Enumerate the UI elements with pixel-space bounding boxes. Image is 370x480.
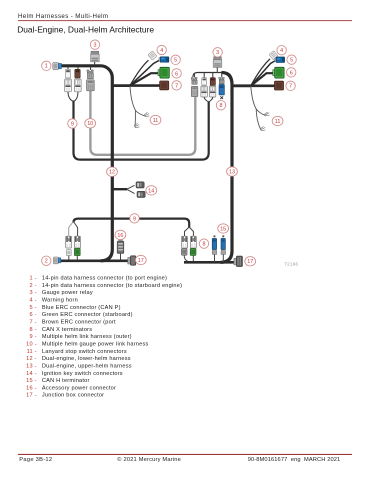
wire: gray gauge power link harness U (10) bbox=[90, 91, 195, 155]
wire: bottom line left bbox=[60, 259, 135, 262]
wire to connector 4 right bbox=[251, 59, 270, 86]
connector 1 (14-pin, port) bbox=[53, 63, 62, 70]
callout 15 bbox=[218, 224, 229, 233]
svg-text:1 -: 1 - bbox=[29, 276, 36, 282]
connector 5 right (blue ERC) bbox=[275, 57, 285, 62]
left drop A striped connector bbox=[65, 79, 72, 92]
callout 8 bottom bbox=[199, 239, 208, 248]
svg-text:6 -: 6 - bbox=[29, 312, 36, 318]
svg-text:7: 7 bbox=[289, 84, 292, 90]
header rule bbox=[18, 19, 352, 22]
x mark under 8 bbox=[220, 96, 223, 99]
CAN H terminator 15 (blue) bbox=[221, 235, 226, 262]
svg-text:8 -: 8 - bbox=[29, 327, 36, 333]
svg-text:Dual-engine, lower-helm harnes: Dual-engine, lower-helm harness bbox=[42, 356, 131, 362]
bottom-right green connector bbox=[190, 248, 196, 255]
callout 3 left bbox=[90, 40, 99, 49]
right small white connector bbox=[202, 78, 207, 85]
svg-text:8: 8 bbox=[203, 242, 206, 248]
lanyard wires 11 left bbox=[130, 86, 145, 116]
svg-text:7: 7 bbox=[175, 83, 178, 89]
callout 11 left bbox=[150, 115, 161, 124]
right small brown connector bbox=[210, 78, 215, 86]
svg-text:5: 5 bbox=[290, 58, 293, 64]
svg-text:6: 6 bbox=[290, 70, 293, 76]
svg-text:9 -: 9 - bbox=[29, 334, 36, 340]
callout 10 bbox=[85, 119, 96, 128]
svg-text:Page 3B-12: Page 3B-12 bbox=[19, 457, 52, 463]
connector 4 left bbox=[148, 51, 157, 60]
svg-text:Helm Harnesses - Multi-Helm: Helm Harnesses - Multi-Helm bbox=[18, 13, 108, 20]
left drop B striped connector bbox=[75, 79, 82, 92]
callout 2 bbox=[42, 256, 51, 265]
wire: branch stub right fan bbox=[232, 84, 251, 87]
svg-text:2 -: 2 - bbox=[29, 283, 36, 289]
callout 17 left bbox=[135, 255, 146, 264]
callout 7 left bbox=[172, 81, 181, 90]
svg-text:4: 4 bbox=[280, 48, 283, 54]
callout 9 upper bbox=[68, 119, 77, 128]
svg-text:12 -: 12 - bbox=[26, 356, 37, 362]
connector 2 (14-pin, starboard) bbox=[53, 257, 60, 264]
svg-text:Blue ERC connector (CAN P): Blue ERC connector (CAN P) bbox=[42, 305, 121, 311]
left crown connector (gauge power) bbox=[87, 70, 93, 79]
wire: left helm bar + lower-helm trunk (12) bbox=[60, 66, 112, 261]
svg-text:12: 12 bbox=[109, 170, 115, 176]
right drop stems bbox=[195, 73, 222, 78]
svg-text:1: 1 bbox=[45, 64, 48, 70]
svg-text:Dual-engine, upper-helm harnes: Dual-engine, upper-helm harness bbox=[42, 363, 132, 369]
svg-text:Multiple helm gauge power link: Multiple helm gauge power link harness bbox=[42, 342, 149, 348]
svg-text:3 -: 3 - bbox=[29, 290, 36, 296]
CAN X terminator 8 bottom (blue) bbox=[212, 235, 217, 262]
junction box plug 17 right bbox=[234, 256, 243, 267]
callout 8 top bbox=[216, 101, 225, 110]
right striped connector 1 bbox=[201, 86, 207, 97]
callout 6 right bbox=[287, 68, 296, 77]
bottom-left small white connector bbox=[66, 250, 71, 256]
left gray gauge connector bbox=[87, 80, 95, 91]
connector 6 left (green ERC) bbox=[158, 67, 169, 78]
svg-text:CAN X terminators: CAN X terminators bbox=[42, 327, 92, 333]
wire to connector 6 left bbox=[130, 73, 160, 85]
svg-text:Lanyard stop switch connectors: Lanyard stop switch connectors bbox=[42, 349, 127, 355]
fray end 2 left bbox=[134, 123, 139, 127]
svg-text:Green ERC connector (starboard: Green ERC connector (starboard) bbox=[42, 312, 133, 318]
wire: lower link harness 9 bbox=[73, 219, 189, 228]
lower 9 left split wires bbox=[69, 222, 74, 237]
svg-text:4: 4 bbox=[160, 48, 163, 54]
wires to key switch connectors 14 bbox=[127, 185, 135, 193]
svg-text:Dual-Engine, Dual-Helm Archite: Dual-Engine, Dual-Helm Architecture bbox=[17, 24, 154, 34]
svg-text:10: 10 bbox=[87, 121, 93, 127]
left drop A small white connector bbox=[65, 69, 70, 78]
svg-text:8: 8 bbox=[220, 103, 223, 109]
svg-text:5 -: 5 - bbox=[29, 305, 36, 311]
wire to connector 5 right bbox=[251, 61, 276, 86]
key switch connector 14b bbox=[137, 191, 145, 197]
svg-text:17: 17 bbox=[247, 259, 253, 265]
svg-text:17 -: 17 - bbox=[26, 393, 37, 399]
svg-text:14 -: 14 - bbox=[26, 371, 37, 377]
svg-text:17: 17 bbox=[138, 258, 144, 264]
bottom-right striped connector pair bbox=[182, 236, 188, 248]
svg-text:Accessory power connector: Accessory power connector bbox=[42, 385, 116, 391]
bottom-left green connector bbox=[74, 248, 80, 255]
callout 16 bbox=[115, 230, 126, 239]
wire to connector 4 left bbox=[130, 60, 149, 85]
callout 17 right bbox=[245, 257, 256, 266]
callout 12 bbox=[107, 167, 118, 176]
svg-text:9: 9 bbox=[71, 121, 74, 127]
right crown connector 1 bbox=[191, 78, 197, 85]
callout 13 bbox=[227, 167, 238, 176]
svg-text:14-pin data harness connector: 14-pin data harness connector (to starbo… bbox=[42, 283, 182, 289]
svg-text:6: 6 bbox=[175, 71, 178, 77]
key switch connector 14a bbox=[136, 182, 144, 188]
svg-text:11: 11 bbox=[153, 118, 159, 124]
left Y merge wires bbox=[68, 92, 78, 102]
relay 3 right bbox=[213, 57, 222, 73]
branch 14 stub bbox=[113, 188, 127, 190]
bottom-right gray connector bbox=[181, 249, 187, 256]
wire: right helm thin bar bbox=[193, 73, 223, 78]
wire to connector 7 left bbox=[130, 84, 160, 87]
callout 6 left bbox=[172, 69, 181, 78]
svg-text:16 -: 16 - bbox=[26, 385, 37, 391]
svg-text:15 -: 15 - bbox=[26, 378, 37, 384]
wire: dark multiple helm link harness U (9) bbox=[74, 101, 209, 160]
right crown connector 2 bbox=[219, 78, 224, 84]
callout 5 left bbox=[171, 55, 180, 64]
connector 5 left (blue ERC) bbox=[159, 57, 169, 62]
lower 9 right split wires bbox=[185, 227, 194, 237]
svg-text:13 -: 13 - bbox=[26, 363, 37, 369]
relay 3 left bbox=[91, 51, 100, 64]
svg-text:5: 5 bbox=[174, 58, 177, 64]
svg-text:© 2021 Mercury Marine: © 2021 Mercury Marine bbox=[117, 456, 181, 463]
callout 1 bbox=[42, 61, 51, 70]
callout 4 right bbox=[277, 46, 286, 55]
callout 7 right bbox=[286, 81, 295, 90]
svg-text:72196: 72196 bbox=[284, 262, 298, 267]
lanyard wires 11 right bbox=[251, 86, 265, 115]
svg-text:Multiple helm link harness (ou: Multiple helm link harness (outer) bbox=[42, 334, 132, 340]
svg-text:14-pin data harness connector: 14-pin data harness connector (to port e… bbox=[42, 276, 167, 282]
svg-text:Junction box connector: Junction box connector bbox=[42, 393, 104, 399]
right striped connector 2 bbox=[209, 86, 215, 97]
wire: branch stub left fan bbox=[112, 84, 130, 87]
svg-text:14: 14 bbox=[148, 188, 154, 194]
svg-text:7 -: 7 - bbox=[29, 320, 36, 326]
callout 5 right bbox=[287, 55, 296, 64]
svg-text:Brown ERC connector (port: Brown ERC connector (port bbox=[42, 320, 116, 326]
wire to connector 7 right bbox=[251, 85, 275, 88]
CAN X terminator 8 (blue) bbox=[219, 84, 224, 95]
svg-text:Ignition key switch connectors: Ignition key switch connectors bbox=[42, 371, 123, 377]
fray end 1 right bbox=[264, 112, 269, 116]
svg-text:11 -: 11 - bbox=[27, 349, 37, 355]
svg-text:4 -: 4 - bbox=[29, 298, 36, 304]
bottom-right connector stems bbox=[184, 255, 193, 261]
bottom-left connector stems bbox=[69, 256, 78, 260]
left drop B small brown connector bbox=[75, 69, 80, 78]
wire to connector 5 left bbox=[130, 60, 160, 85]
svg-text:10 -: 10 - bbox=[26, 342, 37, 348]
callout 3 right bbox=[213, 48, 222, 57]
wire: bottom line right bbox=[184, 261, 237, 264]
right Y merge wires bbox=[204, 97, 213, 102]
svg-text:Gauge power relay: Gauge power relay bbox=[42, 290, 93, 296]
fray end 2 right bbox=[260, 126, 265, 130]
svg-text:90-8M0161677 eng MARCH 2021: 90-8M0161677 eng MARCH 2021 bbox=[248, 457, 341, 463]
svg-text:2: 2 bbox=[45, 259, 48, 265]
wire: upper-helm trunk (13) bbox=[221, 73, 233, 263]
footer rule bbox=[18, 454, 352, 455]
connector 4 right bbox=[269, 51, 278, 60]
bottom-left striped connector pair bbox=[66, 236, 72, 248]
wire to connector 6 right bbox=[251, 73, 275, 86]
svg-text:15: 15 bbox=[220, 226, 226, 232]
svg-text:11: 11 bbox=[275, 119, 281, 125]
svg-text:Warning horn: Warning horn bbox=[42, 298, 78, 304]
svg-text:3: 3 bbox=[216, 50, 219, 56]
callout 11 right bbox=[272, 116, 283, 125]
fray end 1 left bbox=[144, 112, 149, 116]
callout 4 left bbox=[157, 45, 166, 54]
right gray gauge connector bbox=[191, 86, 197, 96]
callout 14 bbox=[146, 186, 157, 195]
svg-text:3: 3 bbox=[94, 43, 97, 49]
connector 16 bbox=[117, 239, 124, 260]
connector 7 left (brown ERC) bbox=[160, 81, 169, 90]
junction box plug 17 left bbox=[128, 256, 136, 266]
connector 7 right (brown ERC) bbox=[275, 81, 284, 90]
svg-text:CAN H terminator: CAN H terminator bbox=[42, 378, 90, 384]
svg-text:13: 13 bbox=[229, 169, 235, 175]
connector 6 right (green ERC) bbox=[273, 67, 284, 78]
svg-text:16: 16 bbox=[117, 233, 123, 239]
svg-text:9: 9 bbox=[133, 216, 136, 222]
callout 9 lower bbox=[130, 214, 139, 223]
left drop stems bbox=[68, 67, 91, 70]
